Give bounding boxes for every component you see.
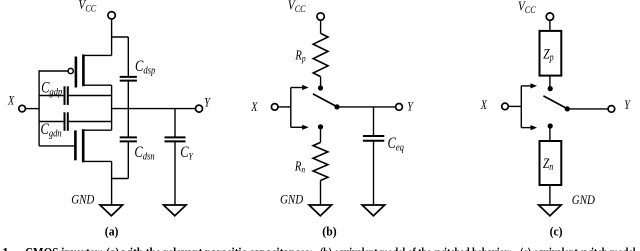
svg-text:1.: 1. [2, 245, 12, 251]
svg-text:Y: Y [204, 95, 211, 109]
svg-text:(c): (c) [550, 224, 563, 239]
svg-text:Cgdp: Cgdp [41, 79, 62, 98]
svg-text:CMOS inverter: (a) with the r: CMOS inverter: (a) with the relevant par… [25, 245, 313, 251]
svg-text:X: X [7, 93, 15, 107]
svg-text:GND: GND [71, 193, 95, 207]
svg-text:Rn: Rn [294, 158, 305, 174]
svg-text:Y: Y [624, 98, 631, 112]
svg-text:GND: GND [280, 193, 304, 207]
svg-text:CY: CY [180, 144, 194, 162]
svg-text:X: X [250, 100, 258, 114]
svg-text:GND: GND [572, 193, 596, 207]
svg-text:VCC: VCC [78, 0, 97, 14]
svg-text:Y: Y [407, 99, 414, 113]
svg-text:(b): (b) [322, 224, 336, 239]
svg-text:VCC: VCC [288, 0, 307, 14]
svg-text:Cdsn: Cdsn [134, 144, 154, 163]
svg-text:Cgdn: Cgdn [41, 121, 62, 140]
svg-text:(c) equivalent switch model.: (c) equivalent switch model. [520, 245, 638, 251]
svg-text:VCC: VCC [518, 0, 537, 15]
svg-text:Ceq: Ceq [388, 135, 404, 154]
svg-text:(b) equivalent model of the sw: (b) equivalent model of the switched beh… [320, 245, 512, 251]
svg-text:X: X [480, 98, 488, 112]
svg-text:(a): (a) [105, 224, 119, 239]
svg-text:Cdsp: Cdsp [135, 58, 155, 77]
svg-text:Rp: Rp [295, 47, 306, 63]
